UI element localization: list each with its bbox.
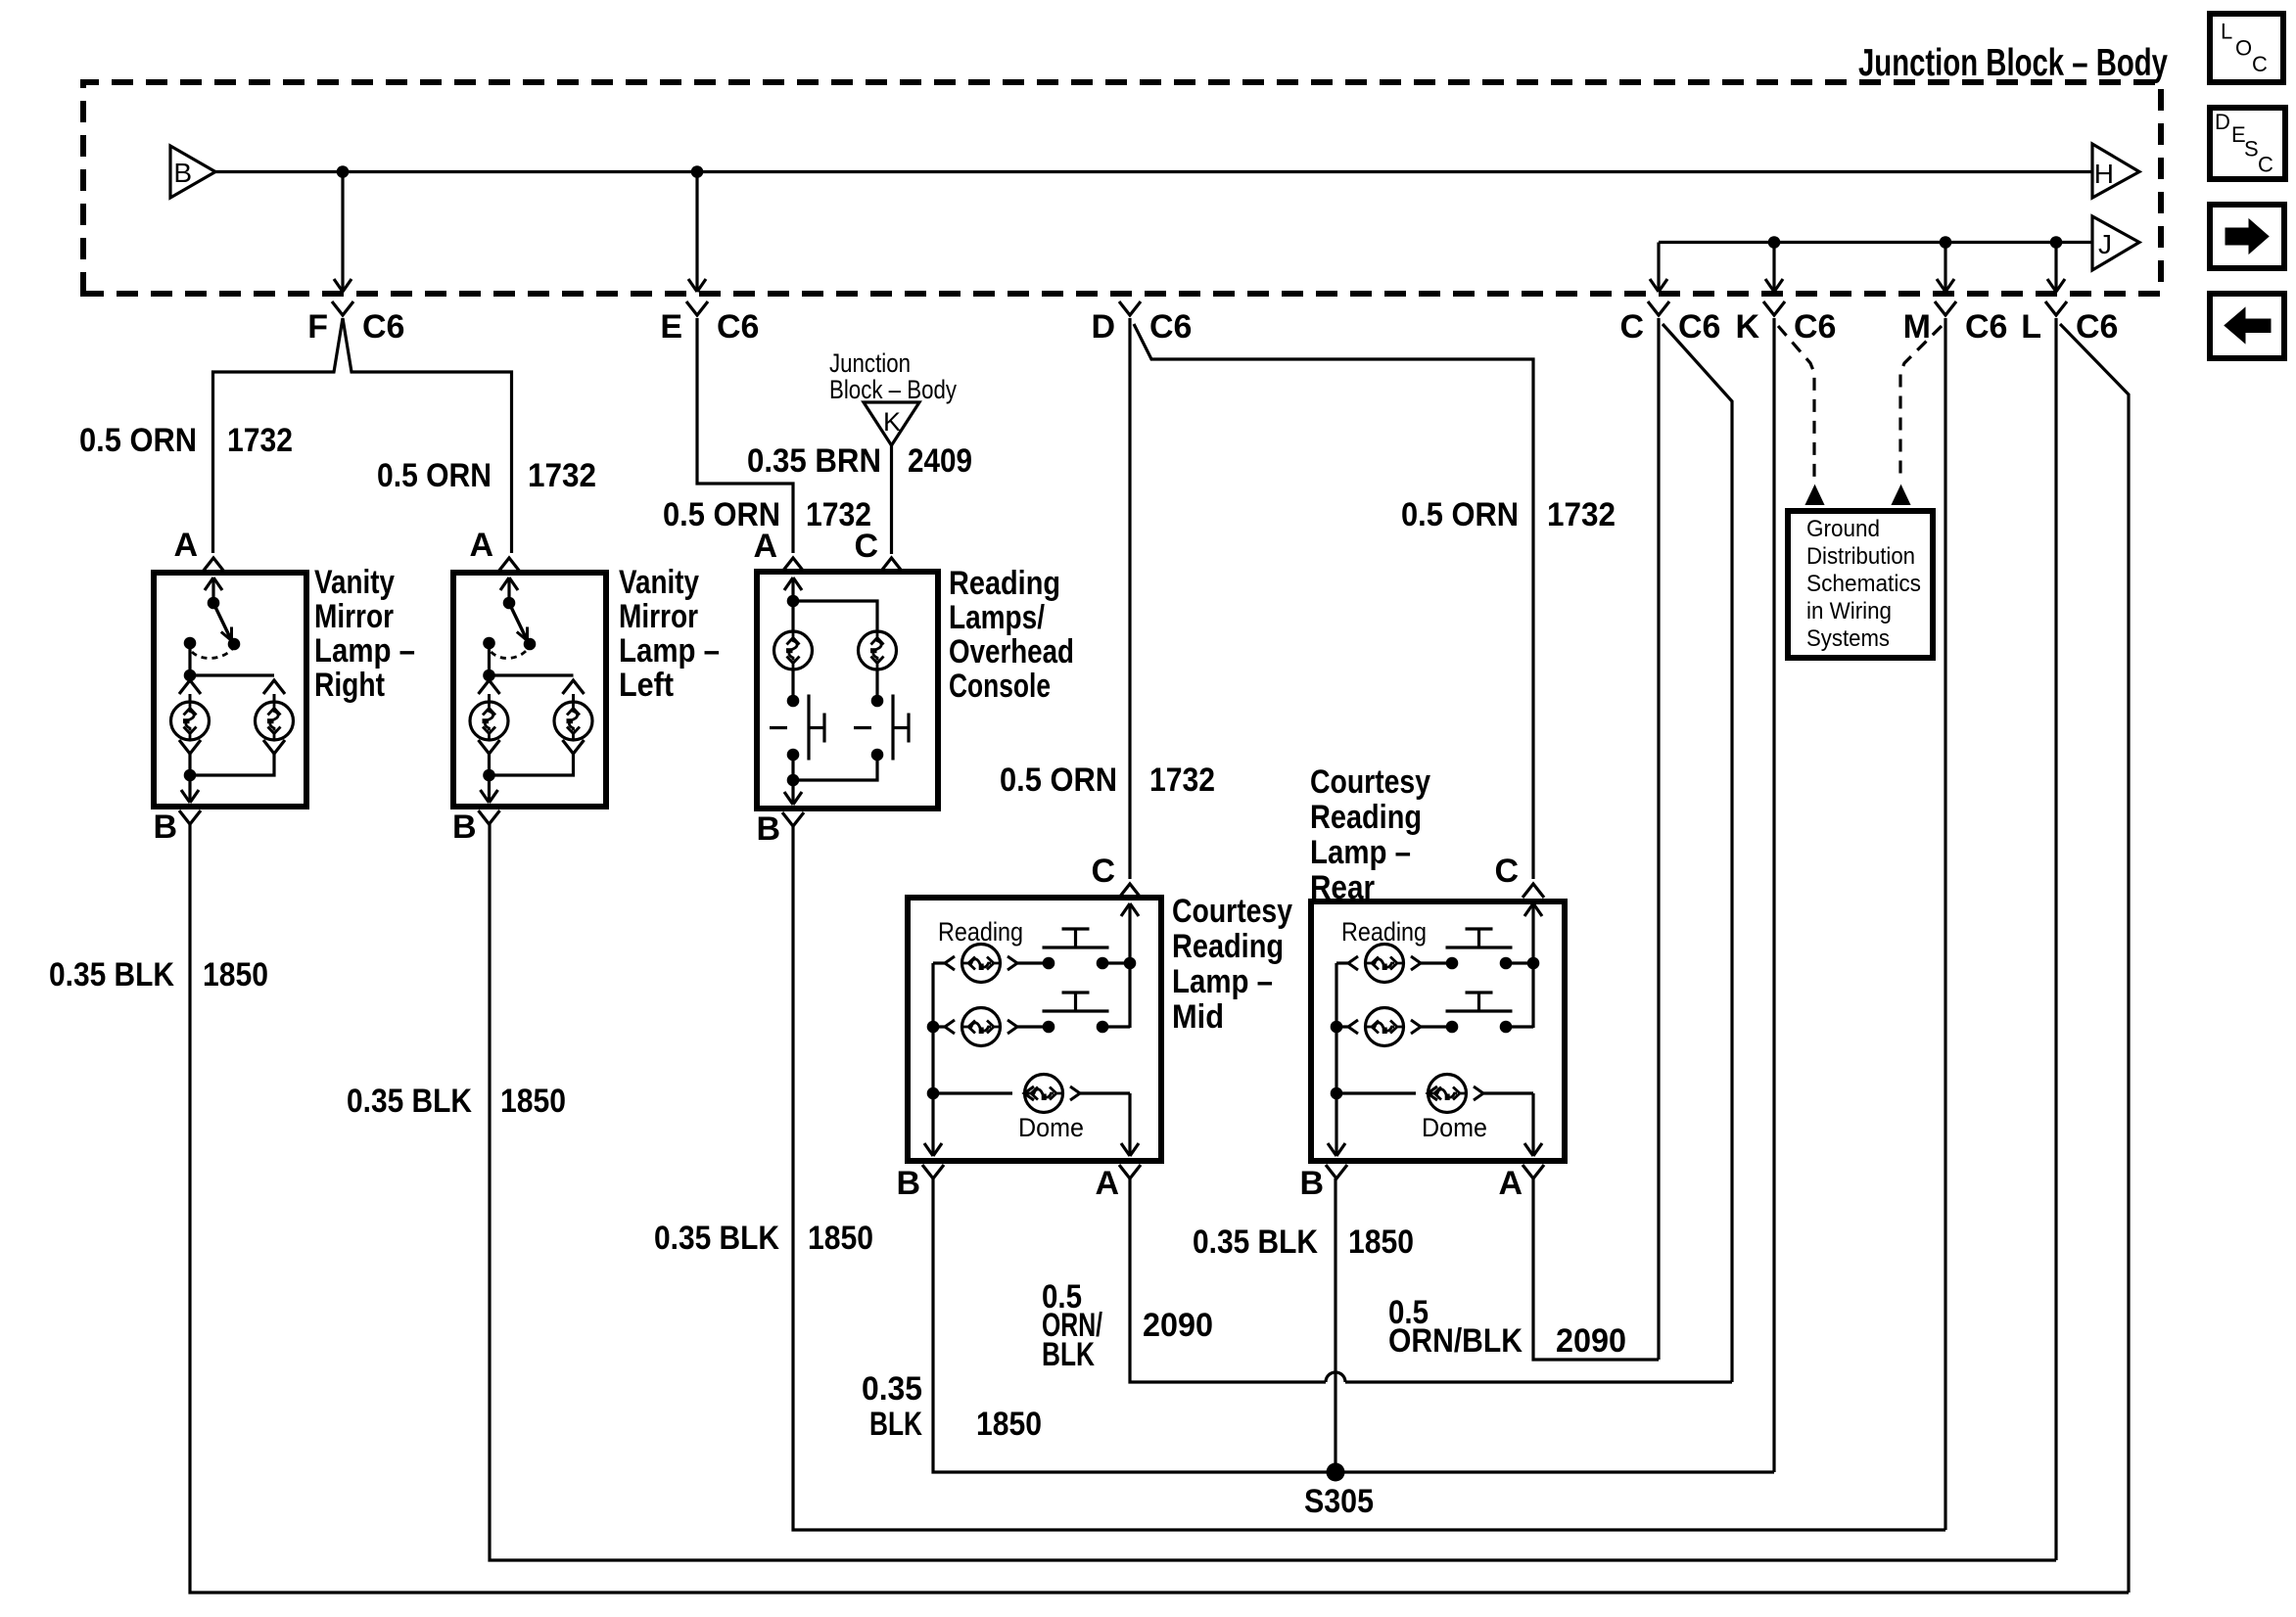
wire C feed down inside courtesy reading lamp rear	[1531, 903, 1534, 1028]
connector A of courtesy reading lamp mid	[1119, 1165, 1141, 1178]
connector C of courtesy reading lamp mid	[1119, 884, 1141, 898]
svg-text:S: S	[2244, 137, 2259, 162]
dashed wire M to ground distribution	[1900, 326, 1942, 482]
switch pivot dot in vanity mirror lamp left	[503, 597, 516, 610]
switch 1 left contact dot courtesy reading lamp rear	[1446, 957, 1459, 970]
lamp 1 top terminal in vanity mirror lamp left	[479, 680, 500, 694]
svg-text:F: F	[307, 308, 328, 346]
pushbutton switch 2 console	[854, 695, 909, 761]
svg-text:1732: 1732	[1547, 496, 1616, 533]
svg-text:C6: C6	[1965, 308, 2007, 346]
svg-text:B: B	[1299, 1165, 1324, 1202]
pushbutton switch 2 in courtesy reading lamp mid	[1043, 993, 1109, 1011]
svg-text:C6: C6	[1794, 308, 1836, 346]
lamp bus wire in vanity mirror lamp left	[490, 673, 574, 676]
switch 2 right contact dot courtesy reading lamp rear	[1500, 1021, 1513, 1034]
junction dot bottom in vanity mirror lamp right	[184, 769, 197, 782]
connector triangle H	[2092, 144, 2139, 198]
arrow up at A inside vanity mirror lamp left	[500, 577, 518, 590]
wire switch 1 to feed courtesy reading lamp mid	[1102, 961, 1130, 964]
reading lamp 2 bulb in courtesy reading lamp rear	[1366, 1008, 1404, 1046]
switch 1 bottom contact dot console	[787, 749, 800, 762]
svg-text:Reading: Reading	[1310, 799, 1422, 836]
svg-text:in Wiring: in Wiring	[1806, 598, 1892, 624]
lamp 2 bottom terminal in vanity mirror lamp left	[563, 740, 585, 754]
svg-text:C6: C6	[2076, 308, 2118, 346]
junction dot feed courtesy reading lamp mid	[1124, 957, 1137, 970]
svg-text:B: B	[756, 810, 780, 848]
wire C direct down	[1657, 318, 1660, 1360]
wire 0.35 BLK 1850 vanity left to L	[490, 824, 2056, 1560]
wire lamp 1 to switch console	[791, 670, 794, 701]
svg-text:Vanity: Vanity	[619, 564, 699, 601]
junction dot lamp bus in vanity mirror lamp left	[483, 670, 495, 682]
svg-text:BLK: BLK	[1042, 1336, 1095, 1373]
wire bus to J	[1659, 241, 2092, 244]
svg-text:S305: S305	[1304, 1483, 1374, 1520]
lamp 1 bulb in console	[774, 631, 813, 670]
svg-text:1732: 1732	[227, 422, 293, 459]
wire lamp bus upper courtesy reading lamp mid	[931, 963, 934, 1027]
lamp 2 left terminal courtesy reading lamp rear	[1348, 1020, 1358, 1034]
wire hop over rear B wire	[1326, 1372, 1345, 1382]
svg-text:Ground: Ground	[1806, 516, 1880, 542]
svg-text:Dome: Dome	[1422, 1113, 1487, 1142]
wire K to console C 2409	[890, 445, 893, 554]
svg-text:Mid: Mid	[1172, 998, 1224, 1036]
connector B of courtesy reading lamp mid	[922, 1165, 944, 1178]
icon box arrow left	[2210, 294, 2284, 358]
icon arrow left	[2225, 308, 2271, 344]
switch 2 bottom contact dot console	[871, 749, 884, 762]
wire A down inside console	[791, 577, 794, 601]
svg-text:D: D	[1091, 308, 1115, 346]
wire lamp 1 to join in vanity mirror lamp left	[488, 754, 491, 775]
wire D to courtesy mid C 1732	[1128, 318, 1131, 879]
switch contact dot left in vanity mirror lamp left	[483, 637, 495, 650]
svg-text:Mirror: Mirror	[619, 598, 698, 635]
wire to B exit in vanity mirror lamp left	[488, 775, 491, 801]
wire F to vanity left circuit 1732	[343, 318, 512, 553]
connector triangle K reference	[864, 402, 919, 445]
svg-text:Lamp –: Lamp –	[314, 632, 415, 670]
svg-text:Reading: Reading	[949, 565, 1060, 602]
arrow down at B inside vanity mirror lamp right	[181, 790, 199, 803]
svg-text:Courtesy: Courtesy	[1310, 763, 1430, 801]
svg-text:C6: C6	[1678, 308, 1720, 346]
stub to lamp 1 in vanity mirror lamp left	[488, 694, 491, 702]
svg-text:Reading: Reading	[938, 917, 1023, 947]
connector C of C6	[1648, 301, 1669, 315]
arrow down at A inside courtesy reading lamp rear	[1524, 1143, 1542, 1156]
wire 0.5 ORN/BLK mid A to C	[1130, 1178, 1732, 1382]
svg-text:C6: C6	[362, 308, 404, 346]
svg-text:Left: Left	[619, 667, 674, 704]
svg-text:A: A	[1095, 1165, 1119, 1202]
lamp 2 right terminal courtesy reading lamp mid	[1007, 1020, 1017, 1034]
stub to lamp 2 in vanity mirror lamp right	[273, 694, 276, 702]
component box reading lamps overhead console	[757, 572, 938, 808]
wire drop to F	[341, 172, 344, 291]
wire C diagonal down	[1663, 324, 1732, 1382]
wire 0.35 BLK 1850 vanity right to L	[190, 824, 2129, 1593]
svg-text:0.5 ORN: 0.5 ORN	[377, 457, 492, 494]
wire L diagonal down	[2060, 324, 2129, 1593]
icon box DESC	[2210, 108, 2285, 179]
wire drop to C	[1657, 243, 1660, 291]
svg-text:L: L	[2221, 20, 2232, 44]
svg-text:0.35 BLK: 0.35 BLK	[1193, 1224, 1318, 1261]
icon arrow right	[2226, 219, 2269, 254]
connector C of overhead console	[881, 558, 903, 572]
lamp bus wire in vanity mirror lamp right	[190, 673, 274, 676]
wire lamp bus upper courtesy reading lamp rear	[1335, 963, 1337, 1027]
connector F of C6	[332, 301, 353, 315]
wire to A exit courtesy reading lamp mid	[1128, 1093, 1131, 1155]
svg-text:1732: 1732	[528, 457, 596, 494]
arrow up at C inside courtesy reading lamp rear	[1524, 903, 1542, 916]
svg-text:Lamps/: Lamps/	[949, 599, 1045, 636]
svg-text:BLK: BLK	[869, 1406, 922, 1443]
connector E of C6	[686, 301, 708, 315]
wire drop to L	[2054, 243, 2057, 291]
switch contact dot left in vanity mirror lamp right	[184, 637, 197, 650]
connector K of C6	[1763, 301, 1785, 315]
switch blade in vanity mirror lamp left	[509, 603, 528, 641]
junction dot bottom in vanity mirror lamp left	[483, 769, 495, 782]
component box courtesy reading lamp mid	[908, 898, 1161, 1161]
svg-text:A: A	[173, 527, 198, 564]
svg-text:B: B	[173, 158, 192, 188]
wire A to switch pivot in vanity mirror lamp left	[507, 577, 510, 603]
junction dot K tap	[1768, 236, 1781, 249]
lamp 1 bottom terminal in vanity mirror lamp left	[479, 740, 500, 754]
wire F to vanity right circuit 1732	[213, 318, 344, 553]
wire lamp 1 to join in vanity mirror lamp right	[188, 754, 191, 775]
switch 1 top contact dot console	[787, 695, 800, 708]
junction dot lamp bus in vanity mirror lamp right	[184, 670, 197, 682]
arrow down at B inside console	[784, 792, 802, 805]
svg-text:E: E	[660, 308, 682, 346]
lamp 1 left terminal courtesy reading lamp mid	[945, 956, 955, 970]
svg-text:1732: 1732	[1149, 762, 1215, 799]
splice S305	[1327, 1463, 1345, 1482]
svg-text:Distribution: Distribution	[1806, 543, 1915, 570]
dome lamp bulb in courtesy reading lamp mid	[1025, 1075, 1063, 1113]
svg-text:Lamp –: Lamp –	[619, 632, 720, 670]
junction block dashed outline	[83, 82, 2161, 294]
lamp 1 bottom terminal in vanity mirror lamp right	[179, 740, 201, 754]
connector L of C6	[2045, 301, 2067, 315]
arrow into F	[334, 279, 351, 292]
switch 2 top contact dot console	[871, 695, 884, 708]
lamp 2 bulb in vanity mirror lamp left	[554, 702, 592, 740]
switch 1 right contact dot courtesy reading lamp rear	[1500, 957, 1513, 970]
junction dot L tap	[2050, 236, 2063, 249]
junction dot lamp 2 courtesy reading lamp rear	[1331, 1021, 1343, 1034]
wire bus B to H	[215, 170, 2092, 173]
svg-text:1850: 1850	[808, 1220, 873, 1257]
arrow into M	[1937, 279, 1954, 292]
stub to lamp 2 in vanity mirror lamp left	[572, 694, 575, 702]
junction dot M tap	[1940, 236, 1952, 249]
arrow up at A inside vanity mirror lamp right	[205, 577, 222, 590]
arrow into L	[2047, 279, 2065, 292]
connector triangle B	[170, 146, 215, 198]
wire lamp 2 to join in vanity mirror lamp left	[490, 754, 574, 775]
dome right terminal courtesy reading lamp rear	[1474, 1086, 1483, 1100]
arrow into E	[688, 279, 706, 292]
connector A of vanity mirror lamp right	[203, 558, 224, 572]
svg-text:0.5 ORN: 0.5 ORN	[79, 422, 197, 459]
connector A of vanity mirror lamp left	[498, 558, 520, 572]
lamp 2 bulb in vanity mirror lamp right	[256, 702, 294, 740]
connector B of vanity mirror lamp left	[479, 810, 500, 824]
switch travel dashed arc in vanity mirror lamp right	[192, 649, 232, 658]
wire E to console A 1732	[697, 318, 793, 553]
svg-text:Vanity: Vanity	[314, 564, 395, 601]
svg-text:C: C	[2258, 153, 2273, 177]
svg-text:K: K	[1735, 308, 1759, 346]
wire K direct down	[1772, 318, 1775, 1472]
svg-text:1850: 1850	[203, 956, 268, 993]
wire M direct down	[1944, 318, 1946, 1530]
reading lamp 1 bulb in courtesy reading lamp mid	[962, 945, 1001, 983]
svg-text:ORN/BLK: ORN/BLK	[1388, 1322, 1523, 1360]
svg-text:Junction Block – Body: Junction Block – Body	[1858, 42, 2168, 84]
junction dot lamp feed console	[787, 595, 800, 608]
switch pivot dot in vanity mirror lamp right	[208, 597, 220, 610]
svg-text:B: B	[896, 1165, 920, 1202]
wire switch 2 to feed courtesy reading lamp mid	[1102, 1025, 1130, 1028]
pushbutton switch 1 in courtesy reading lamp rear	[1446, 929, 1513, 947]
wire switch 1 to feed courtesy reading lamp rear	[1506, 961, 1533, 964]
arrow up at A inside console	[784, 577, 802, 590]
svg-text:C: C	[1619, 308, 1644, 346]
component box vanity mirror lamp right	[154, 573, 306, 807]
svg-text:Junction: Junction	[829, 348, 911, 378]
svg-text:Right: Right	[314, 667, 385, 704]
junction dot E tap	[691, 165, 704, 178]
switch 2 left contact dot courtesy reading lamp mid	[1043, 1021, 1055, 1034]
svg-text:Block – Body: Block – Body	[829, 375, 957, 404]
lamp 1 right terminal courtesy reading lamp rear	[1411, 956, 1421, 970]
switch travel dashed arc in vanity mirror lamp left	[492, 649, 529, 658]
lamp 2 top terminal in vanity mirror lamp right	[263, 680, 285, 694]
reading lamp 2 bulb in courtesy reading lamp mid	[962, 1008, 1001, 1046]
svg-text:A: A	[1498, 1165, 1523, 1202]
wire lamp 2 to switch console	[875, 670, 878, 701]
lamp 2 right terminal courtesy reading lamp rear	[1411, 1020, 1421, 1034]
svg-text:C: C	[2252, 52, 2268, 76]
wire 0.35 BLK 1850 console to M	[793, 826, 1945, 1530]
svg-text:O: O	[2235, 36, 2252, 61]
arrow down at A inside courtesy reading lamp mid	[1121, 1143, 1139, 1156]
junction dot F tap	[337, 165, 350, 178]
wire drop to K	[1772, 243, 1775, 291]
svg-text:A: A	[469, 527, 493, 564]
icon box LOC	[2210, 14, 2283, 82]
switch 2 left contact dot courtesy reading lamp rear	[1446, 1021, 1459, 1034]
svg-text:Dome: Dome	[1018, 1113, 1084, 1142]
wire 0.35 BLK mid B to S305 to K	[933, 1178, 1774, 1472]
wire lamp bus lower courtesy reading lamp mid	[931, 1027, 934, 1093]
connector B of courtesy reading lamp rear	[1326, 1165, 1347, 1178]
connector A of overhead console	[782, 558, 804, 572]
wire switch 2 to feed courtesy reading lamp rear	[1506, 1025, 1533, 1028]
pushbutton switch 2 in courtesy reading lamp rear	[1446, 993, 1513, 1011]
arrowhead M to ground box	[1893, 486, 1909, 504]
svg-text:Courtesy: Courtesy	[1172, 893, 1292, 930]
lamp 1 right terminal courtesy reading lamp mid	[1007, 956, 1017, 970]
svg-text:0.5 ORN: 0.5 ORN	[1401, 496, 1519, 533]
svg-text:C6: C6	[717, 308, 759, 346]
lamp 2 left terminal courtesy reading lamp mid	[945, 1020, 955, 1034]
wire to lamp 1 console	[791, 601, 794, 631]
pushbutton switch 1 in courtesy reading lamp mid	[1043, 929, 1109, 947]
wire lamp bus lower courtesy reading lamp rear	[1335, 1027, 1337, 1093]
wire to B exit in vanity mirror lamp right	[188, 775, 191, 801]
switch blade in vanity mirror lamp right	[213, 603, 232, 641]
svg-text:Lamp –: Lamp –	[1172, 963, 1273, 1000]
lamp 2 top terminal in vanity mirror lamp left	[563, 680, 585, 694]
svg-text:Schematics: Schematics	[1806, 571, 1921, 597]
svg-text:C: C	[854, 528, 878, 565]
svg-text:L: L	[2021, 308, 2041, 346]
junction dot feed courtesy reading lamp rear	[1527, 957, 1540, 970]
svg-text:1850: 1850	[1348, 1224, 1414, 1261]
arrowhead K to ground box	[1806, 486, 1823, 504]
stub to lamp 1 in vanity mirror lamp right	[189, 694, 192, 702]
branch wire to lamp 2 console	[793, 601, 877, 631]
wire C feed down inside courtesy reading lamp mid	[1128, 903, 1131, 1028]
svg-text:H: H	[2094, 159, 2114, 189]
switch contact dot right in vanity mirror lamp left	[524, 638, 537, 651]
svg-text:Overhead: Overhead	[949, 633, 1074, 670]
svg-text:0.5 ORN: 0.5 ORN	[1000, 762, 1117, 799]
svg-text:1850: 1850	[500, 1083, 566, 1120]
svg-text:2090: 2090	[1556, 1322, 1626, 1360]
reading lamp 1 bulb in courtesy reading lamp rear	[1366, 945, 1404, 983]
svg-text:Rear: Rear	[1310, 869, 1375, 906]
junction dot bottom console	[787, 774, 800, 787]
arrow into C	[1650, 279, 1667, 292]
switch contact dot right in vanity mirror lamp right	[228, 638, 241, 651]
wire A to switch pivot in vanity mirror lamp right	[211, 577, 214, 603]
connector M of C6	[1935, 301, 1956, 315]
lamp 1 bulb in vanity mirror lamp left	[470, 702, 508, 740]
dome lamp bulb in courtesy reading lamp rear	[1429, 1075, 1467, 1113]
svg-text:Lamp –: Lamp –	[1310, 834, 1411, 871]
connector B of console	[782, 812, 804, 826]
component box courtesy reading lamp rear	[1311, 901, 1565, 1161]
connector C of courtesy reading lamp rear	[1523, 884, 1544, 898]
junction dot dome courtesy reading lamp mid	[927, 1087, 940, 1100]
connector D of C6	[1119, 301, 1141, 315]
lamp 1 left terminal courtesy reading lamp rear	[1348, 956, 1358, 970]
svg-text:C6: C6	[1149, 308, 1192, 346]
lamp 1 top terminal in vanity mirror lamp right	[179, 680, 201, 694]
svg-text:C: C	[1494, 853, 1519, 890]
arrow down at B inside vanity mirror lamp left	[481, 790, 498, 803]
wire drop to E	[695, 172, 698, 291]
lamp 1 bulb in vanity mirror lamp right	[171, 702, 210, 740]
dome right terminal courtesy reading lamp mid	[1070, 1086, 1080, 1100]
arrow up at C inside courtesy reading lamp mid	[1121, 903, 1139, 916]
dome left terminal courtesy reading lamp rear	[1428, 1086, 1437, 1100]
wire to dome lamp courtesy reading lamp mid	[933, 1091, 1012, 1094]
wire to B exit courtesy reading lamp mid	[931, 1093, 934, 1155]
svg-text:A: A	[753, 528, 777, 565]
wire 0.35 BLK rear B to S305	[1334, 1178, 1336, 1472]
wire to A exit courtesy reading lamp rear	[1531, 1093, 1534, 1155]
svg-text:B: B	[452, 808, 477, 846]
connector B of vanity mirror lamp right	[179, 810, 201, 824]
wire to B exit console	[791, 780, 794, 803]
junction dot dome courtesy reading lamp rear	[1331, 1087, 1343, 1100]
wire to B exit courtesy reading lamp rear	[1335, 1093, 1337, 1155]
pushbutton switch 1 console	[770, 695, 824, 761]
wire D to courtesy rear C 1732	[1134, 324, 1533, 879]
switch 1 left contact dot courtesy reading lamp mid	[1043, 957, 1055, 970]
dome left terminal courtesy reading lamp mid	[1024, 1086, 1034, 1100]
svg-text:2409: 2409	[908, 442, 972, 480]
svg-text:D: D	[2215, 110, 2230, 134]
arrow down at B inside courtesy reading lamp mid	[924, 1143, 942, 1156]
svg-text:Mirror: Mirror	[314, 598, 394, 635]
lamp 2 bottom terminal in vanity mirror lamp right	[263, 740, 285, 754]
svg-text:Console: Console	[949, 668, 1051, 705]
svg-text:M: M	[1903, 308, 1931, 346]
svg-text:0.35 BLK: 0.35 BLK	[49, 956, 174, 993]
svg-text:0.35 BLK: 0.35 BLK	[654, 1220, 779, 1257]
svg-text:C: C	[1091, 853, 1115, 890]
wire L direct down	[2054, 318, 2057, 1560]
arrow down at B inside courtesy reading lamp rear	[1328, 1143, 1345, 1156]
svg-text:B: B	[153, 808, 177, 846]
connector A of courtesy reading lamp rear	[1523, 1165, 1544, 1178]
svg-text:1850: 1850	[976, 1406, 1042, 1443]
ground distribution reference box	[1788, 511, 1933, 658]
component box vanity mirror lamp left	[453, 573, 606, 807]
switch 1 right contact dot courtesy reading lamp mid	[1097, 957, 1109, 970]
wire switch 1 to join console	[791, 755, 794, 780]
wire contact to lamp bus in vanity mirror lamp left	[488, 643, 491, 675]
lamp 2 bulb in console	[859, 631, 897, 670]
svg-text:0.35: 0.35	[862, 1370, 922, 1408]
arrow into K	[1765, 279, 1783, 292]
connector triangle J	[2092, 216, 2139, 270]
wire 0.5 ORN/BLK rear A to C	[1533, 1178, 1659, 1360]
icon box arrow right	[2210, 205, 2284, 268]
svg-text:0.35 BLK: 0.35 BLK	[347, 1083, 472, 1120]
svg-text:2090: 2090	[1143, 1307, 1213, 1344]
wire to dome lamp courtesy reading lamp rear	[1336, 1091, 1416, 1094]
switch 2 right contact dot courtesy reading lamp mid	[1097, 1021, 1109, 1034]
dashed wire K to ground distribution	[1778, 326, 1814, 482]
wire lamp 2 to join in vanity mirror lamp right	[190, 754, 274, 775]
wire drop to M	[1944, 243, 1946, 291]
svg-text:0.35 BRN: 0.35 BRN	[747, 442, 881, 480]
svg-text:Reading: Reading	[1341, 917, 1427, 947]
svg-text:Systems: Systems	[1806, 625, 1890, 652]
svg-text:Reading: Reading	[1172, 928, 1284, 965]
wire switch 2 to join console	[793, 755, 877, 780]
junction dot lamp 2 courtesy reading lamp mid	[927, 1021, 940, 1034]
svg-text:K: K	[883, 407, 901, 437]
svg-text:J: J	[2098, 229, 2112, 259]
wire contact to lamp bus in vanity mirror lamp right	[188, 643, 191, 675]
